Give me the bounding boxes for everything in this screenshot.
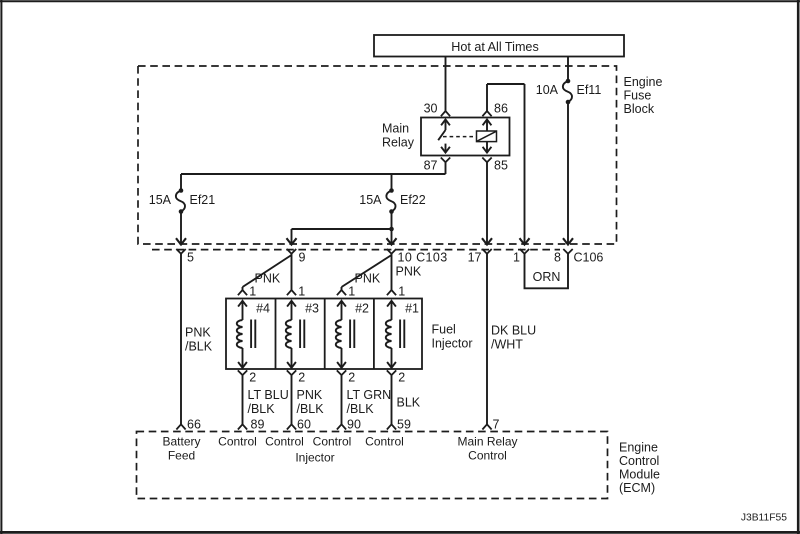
relay pin 85 — [482, 158, 508, 173]
svg-text:Engine: Engine — [619, 441, 658, 455]
junction at Ef22 output — [389, 227, 394, 232]
injector #4 pin 2 — [238, 370, 256, 384]
engine fuse block boundary — [138, 66, 662, 244]
injector #4 coil — [237, 301, 270, 368]
svg-text:(ECM): (ECM) — [619, 481, 655, 495]
svg-text:#3: #3 — [305, 302, 319, 316]
svg-text:15A: 15A — [359, 193, 382, 207]
svg-text:Main Relay: Main Relay — [457, 435, 517, 449]
svg-text:Fuse: Fuse — [624, 89, 652, 103]
svg-text:30: 30 — [424, 102, 438, 116]
wire PNK: pin 10 to injector #1 pin 1 — [387, 254, 422, 296]
wire: relay pin 86 over to connector pin 1 — [487, 84, 530, 245]
svg-text:Block: Block — [624, 102, 655, 116]
relay pin 87 — [424, 158, 451, 173]
svg-text:1: 1 — [298, 284, 305, 298]
wire: fuse Ef22 to connector pins 9 and 10 — [287, 212, 397, 245]
svg-text:PNK: PNK — [185, 326, 211, 340]
connector pin 1 — [513, 249, 529, 265]
svg-text:C106: C106 — [574, 251, 604, 265]
svg-text:Control: Control — [365, 435, 404, 449]
connector C103/C106 line — [152, 249, 560, 251]
svg-text:PNK: PNK — [255, 272, 281, 286]
svg-text:Battery: Battery — [162, 435, 200, 449]
connector pin 5 — [176, 249, 194, 265]
svg-text:#4: #4 — [256, 302, 270, 316]
svg-text:Control: Control — [313, 435, 352, 449]
svg-text:/BLK: /BLK — [185, 340, 213, 354]
fuse Ef11 10A — [536, 79, 602, 105]
svg-text:Hot at All Times: Hot at All Times — [451, 40, 539, 54]
svg-text:/BLK: /BLK — [297, 402, 325, 416]
injector #3 coil — [286, 301, 319, 368]
relay pin 86 — [482, 102, 508, 117]
svg-text:8: 8 — [554, 251, 561, 265]
svg-text:Feed: Feed — [168, 449, 195, 463]
wire PNK/BLK: pin 5 to ECM pin 66 — [176, 254, 185, 430]
wire: Hot at All Times to fuse Ef11 — [567, 57, 569, 82]
svg-text:Relay: Relay — [382, 136, 415, 150]
wire PNK: pin 10 branch to injector #2 pin 1 — [337, 255, 392, 295]
svg-text:10 C103: 10 C103 — [398, 251, 448, 265]
svg-text:89: 89 — [251, 418, 265, 432]
connector pin 8 C106 — [554, 249, 603, 265]
svg-text:7: 7 — [493, 418, 500, 432]
svg-text:Module: Module — [619, 468, 660, 482]
injector #2 pin 2 — [337, 370, 356, 384]
svg-text:5: 5 — [187, 251, 194, 265]
wire LT GRN/BLK: injector #2 to ECM pin 90 — [337, 375, 391, 429]
wire PNK: pin 9 to injector #3 pin 1 — [287, 254, 296, 296]
svg-text:#1: #1 — [405, 302, 419, 316]
jumper wire ORN between pin 1 and pin 8 — [525, 254, 569, 289]
label Battery Feed — [162, 435, 200, 463]
svg-text:10A: 10A — [536, 83, 559, 97]
svg-text:9: 9 — [299, 251, 306, 265]
injector #1 pin 2 — [387, 370, 406, 384]
label Main Relay — [382, 122, 415, 150]
wire: fuse Ef11 to connector pin 8 — [563, 102, 573, 245]
svg-text:Control: Control — [265, 435, 304, 449]
svg-text:Main: Main — [382, 122, 409, 136]
injector #1 coil — [386, 301, 419, 368]
svg-text:PNK: PNK — [396, 265, 422, 279]
fuse Ef22 15A — [359, 188, 426, 214]
wire PNK: pin 9 branch to injector #4 pin 1 — [238, 255, 292, 295]
injector #3 pin 2 — [287, 370, 306, 384]
relay: Main Relay — [421, 118, 510, 156]
svg-text:Ef21: Ef21 — [190, 193, 216, 207]
svg-text:1: 1 — [513, 251, 520, 265]
svg-text:PNK: PNK — [297, 388, 323, 402]
wire BLK: injector #1 to ECM pin 59 — [387, 375, 421, 429]
svg-text:ORN: ORN — [533, 270, 561, 284]
svg-text:60: 60 — [297, 418, 311, 432]
svg-text:15A: 15A — [149, 193, 172, 207]
wire: relay pin 87 to fuses Ef21/Ef22 — [181, 162, 446, 190]
svg-text:86: 86 — [494, 102, 508, 116]
label PNK/BLK — [185, 326, 213, 354]
svg-text:BLK: BLK — [397, 396, 421, 410]
svg-text:90: 90 — [347, 418, 361, 432]
svg-text:Fuel: Fuel — [432, 323, 456, 337]
wire: fuse Ef21 to connector pin 5 — [176, 212, 186, 245]
svg-text:2: 2 — [348, 370, 355, 384]
label Fuel Injector — [432, 323, 473, 351]
svg-text:2: 2 — [249, 370, 256, 384]
wire DK BLU/WHT: pin 17 to ECM pin 7 — [482, 254, 536, 430]
svg-text:1: 1 — [348, 284, 355, 298]
svg-text:/BLK: /BLK — [347, 402, 375, 416]
svg-text:PNK: PNK — [355, 272, 381, 286]
engine control module boundary — [137, 432, 661, 499]
svg-text:/WHT: /WHT — [491, 338, 523, 352]
svg-text:59: 59 — [397, 418, 411, 432]
svg-text:Engine: Engine — [624, 75, 663, 89]
svg-text:1: 1 — [398, 284, 405, 298]
injector #2 coil — [336, 301, 369, 368]
svg-text:#2: #2 — [355, 302, 369, 316]
svg-text:87: 87 — [424, 159, 438, 173]
svg-text:2: 2 — [298, 370, 305, 384]
fuel injector assembly box — [226, 299, 422, 370]
wire: Hot at All Times to relay pin 30 — [441, 57, 450, 117]
svg-text:Injector: Injector — [432, 337, 473, 351]
svg-text:85: 85 — [494, 159, 508, 173]
svg-text:2: 2 — [398, 370, 405, 384]
wire PNK/BLK: injector #3 to ECM pin 60 — [287, 375, 324, 429]
svg-text:Injector: Injector — [295, 451, 334, 465]
svg-text:66: 66 — [187, 418, 201, 432]
connector pin 17 — [468, 249, 492, 265]
svg-text:LT BLU: LT BLU — [248, 388, 289, 402]
svg-text:/BLK: /BLK — [248, 402, 276, 416]
label Main Relay Control — [457, 435, 517, 463]
wire: relay pin 85 to connector pin 17 — [482, 162, 492, 244]
wire LT BLU/BLK: injector #4 to ECM pin 89 — [238, 375, 289, 429]
connector pin 9 — [287, 249, 306, 265]
svg-text:Ef11: Ef11 — [577, 83, 602, 97]
svg-text:DK BLU: DK BLU — [491, 324, 536, 338]
svg-text:1: 1 — [249, 284, 256, 298]
svg-text:17: 17 — [468, 251, 482, 265]
svg-text:LT GRN: LT GRN — [347, 388, 392, 402]
power feed node: Hot at All Times — [374, 35, 624, 57]
fuse Ef21 15A — [149, 188, 216, 214]
svg-text:Control: Control — [218, 435, 257, 449]
connector pin 10 C103 — [387, 249, 448, 265]
svg-text:Ef22: Ef22 — [400, 193, 426, 207]
svg-text:Control: Control — [619, 454, 659, 468]
svg-text:J3B11F55: J3B11F55 — [741, 513, 787, 524]
svg-text:Control: Control — [468, 449, 507, 463]
